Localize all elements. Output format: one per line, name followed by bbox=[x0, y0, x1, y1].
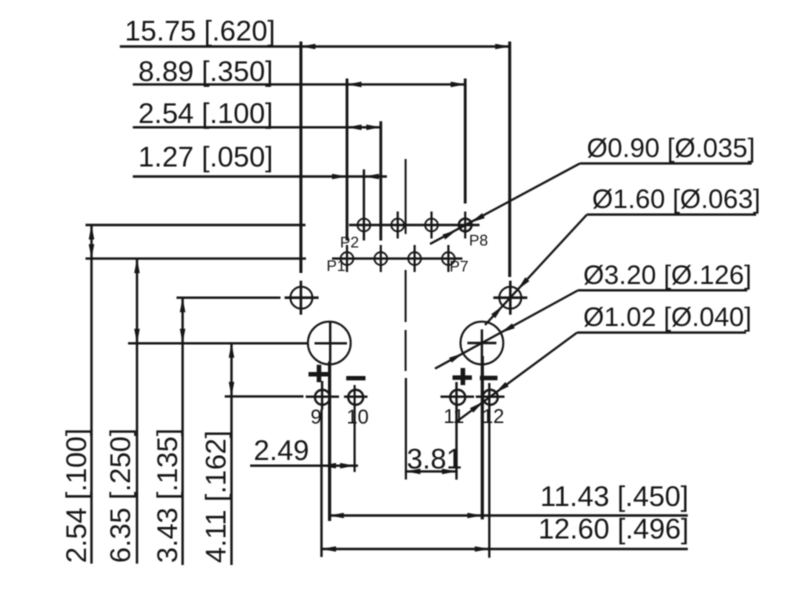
hole P3 bbox=[374, 252, 387, 265]
minus mark right bbox=[480, 376, 498, 380]
svg-text:P8: P8 bbox=[469, 233, 488, 250]
ref line hole160 level bbox=[177, 297, 281, 299]
svg-text:15.75 [.620]: 15.75 [.620] bbox=[125, 16, 276, 48]
callout 0.90 arrowheads bbox=[471, 213, 485, 222]
dim 3.81 arrows bbox=[406, 469, 421, 475]
hole 3.20 right bbox=[461, 322, 504, 365]
hole P5 bbox=[408, 252, 421, 265]
ext line P2 x=363.9 bbox=[363, 169, 365, 240]
hole P8 bbox=[459, 219, 472, 232]
dim 3.81 line bbox=[406, 470, 457, 472]
dim 2.54 [.100] vertical line bbox=[90, 225, 92, 564]
svg-text:6.35 [.250]: 6.35 [.250] bbox=[105, 428, 137, 563]
svg-text:8.89 [.350]: 8.89 [.350] bbox=[138, 56, 273, 88]
callout 3.20 arrowheads bbox=[501, 323, 515, 332]
ref line P1-row left bbox=[86, 257, 307, 259]
hole P2 bbox=[358, 219, 371, 232]
callout 0.90 shelf bbox=[580, 162, 752, 164]
hole 3.20 left bbox=[308, 322, 351, 365]
ext line pin10 bbox=[354, 385, 356, 472]
callout 1.60 shelf bbox=[587, 213, 756, 215]
dim 8.89 line bbox=[133, 83, 465, 85]
dim 15.75 arrows bbox=[301, 44, 316, 50]
plus mark left bbox=[309, 372, 329, 377]
dim 1.27 line bbox=[133, 175, 387, 177]
minus mark left bbox=[346, 376, 365, 380]
ref line big-hole level bbox=[128, 342, 309, 344]
dim 15.75 line bbox=[120, 45, 510, 47]
dim 6.35 [.250] vertical line bbox=[136, 259, 138, 564]
svg-text:12: 12 bbox=[482, 406, 504, 428]
ref line pin9 level bbox=[225, 395, 304, 397]
dim 8.89 arrows bbox=[347, 82, 362, 88]
dim 3.43 vertical arrows bbox=[180, 298, 186, 313]
ext line pin12 down bbox=[488, 383, 490, 558]
ext line pin9 down bbox=[320, 410, 322, 558]
hole P7 bbox=[442, 252, 455, 265]
centerline (dashed) bbox=[405, 159, 407, 234]
svg-text:P2: P2 bbox=[340, 234, 359, 251]
hole P6 bbox=[425, 219, 438, 232]
ref line P2-row left bbox=[86, 224, 306, 226]
hole P1 bbox=[341, 252, 354, 265]
pin 11 bbox=[450, 390, 465, 405]
svg-text:3.43 [.135]: 3.43 [.135] bbox=[152, 428, 184, 563]
ext line big-right down bbox=[481, 356, 484, 519]
dim 4.11 [.162] vertical line bbox=[230, 343, 232, 565]
dim 12.60 line bbox=[322, 548, 688, 550]
callout 1.02 arrowheads bbox=[495, 382, 508, 393]
callout 1.60 leader bbox=[485, 215, 587, 325]
ext line P3 x=380.8 bbox=[379, 121, 382, 240]
svg-text:Ø1.02 [Ø.040]: Ø1.02 [Ø.040] bbox=[583, 302, 751, 332]
ext line big-left down bbox=[328, 361, 331, 521]
svg-text:2.54 [.100]: 2.54 [.100] bbox=[138, 98, 273, 130]
pin row bottom crosshair line bbox=[332, 257, 462, 259]
dim 11.43 arrows bbox=[329, 513, 344, 519]
dim 2.54 vertical arrows bbox=[89, 225, 95, 240]
dim 4.11 vertical arrows bbox=[229, 343, 235, 358]
svg-text:P7: P7 bbox=[450, 259, 469, 276]
pin 12 bbox=[483, 390, 498, 405]
svg-text:2.49: 2.49 bbox=[254, 435, 309, 467]
svg-text:12.60 [.496]: 12.60 [.496] bbox=[538, 514, 689, 546]
ext line P8 x=465.2 bbox=[464, 79, 467, 204]
callout 1.02 leader bbox=[455, 333, 577, 423]
svg-text:4.11 [.162]: 4.11 [.162] bbox=[201, 430, 233, 563]
callout 3.20 leader bbox=[435, 290, 578, 368]
svg-text:Ø1.60 [Ø.063]: Ø1.60 [Ø.063] bbox=[592, 184, 760, 214]
pin 10 bbox=[348, 390, 363, 405]
ext line P1 x=347 bbox=[346, 79, 349, 241]
svg-text:9: 9 bbox=[311, 406, 322, 428]
ext line hole160-right x=509.7 bbox=[508, 42, 511, 278]
svg-text:11.43 [.450]: 11.43 [.450] bbox=[540, 481, 688, 513]
dim 11.43 line bbox=[329, 514, 688, 516]
hole 1.60 left bbox=[290, 287, 312, 309]
dim 2.54 line bbox=[133, 126, 382, 128]
svg-text:10: 10 bbox=[347, 407, 369, 429]
pin row top crosshair line bbox=[349, 224, 480, 226]
callout 1.60 arrowheads bbox=[518, 277, 530, 290]
hole P4 bbox=[391, 219, 404, 232]
plus mark right bbox=[453, 375, 472, 380]
dim 12.60 arrows bbox=[322, 546, 337, 552]
svg-text:2.54 [.100]: 2.54 [.100] bbox=[61, 428, 93, 563]
dim 2.49 arrows bbox=[322, 463, 337, 469]
ext line pin11 bbox=[455, 382, 457, 480]
callout 1.02 shelf bbox=[577, 331, 746, 333]
dim 2.54 arrows bbox=[347, 125, 362, 131]
ext line hole160-left x=300.9 bbox=[299, 42, 302, 274]
callout 3.20 shelf bbox=[578, 289, 747, 291]
callout 0.90 leader bbox=[430, 163, 580, 244]
svg-text:P1: P1 bbox=[327, 258, 346, 275]
dim 6.35 vertical arrows bbox=[134, 259, 140, 274]
svg-text:Ø0.90 [Ø.035]: Ø0.90 [Ø.035] bbox=[587, 133, 755, 163]
dim 3.43 [.135] vertical line bbox=[181, 298, 183, 565]
pin 9 bbox=[315, 390, 330, 405]
svg-text:Ø3.20 [Ø.126]: Ø3.20 [Ø.126] bbox=[583, 260, 751, 290]
dim 2.49 line bbox=[250, 465, 358, 467]
svg-text:1.27 [.050]: 1.27 [.050] bbox=[138, 142, 273, 174]
hole 1.60 right bbox=[499, 287, 521, 309]
dim 1.27 arrows (outside) bbox=[332, 174, 347, 180]
